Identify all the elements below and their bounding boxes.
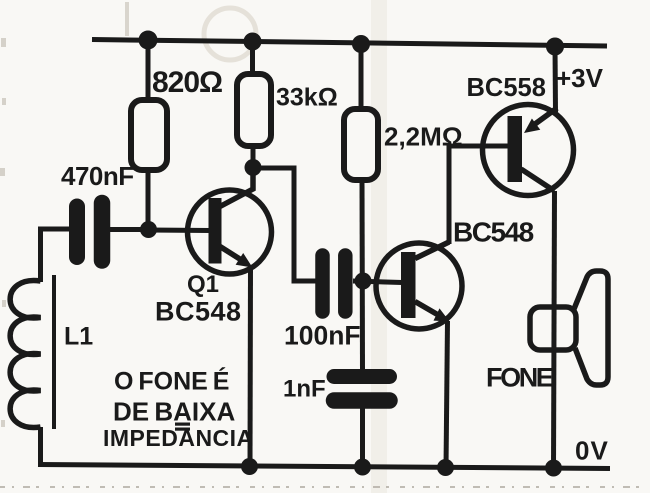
svg-text:+3V: +3V	[556, 63, 604, 93]
transistor T2 body circle	[376, 243, 462, 329]
scan ghost vertical mark top left	[125, 2, 129, 36]
junction dot 0V rail / FONE	[545, 460, 562, 477]
inductor L1 coil	[10, 280, 40, 427]
svg-text:2,2MΩ: 2,2MΩ	[384, 122, 463, 152]
junction dot 0V rail / 1nF	[354, 459, 371, 476]
svg-text:820Ω: 820Ω	[152, 66, 222, 99]
transistor BC558 body circle	[483, 105, 574, 196]
earphone FONE horn cone	[574, 271, 608, 385]
transistor BC558 emitter lead	[535, 108, 557, 124]
svg-text:IMPEDANCIA: IMPEDANCIA	[103, 425, 254, 451]
transistor Q1 body circle	[188, 190, 272, 274]
junction dot Q1 collector / 33k	[245, 159, 262, 176]
wire T2 collector up and right to BC558 base	[449, 146, 509, 244]
svg-text:BC558: BC558	[467, 74, 546, 102]
capacitor 100nF left plate	[315, 256, 330, 312]
wire Q1 emitter to 0V rail	[248, 268, 254, 466]
transistor BC558 emitter arrowhead	[524, 119, 540, 134]
svg-text:0V: 0V	[575, 436, 609, 466]
junction dot node B	[355, 273, 372, 290]
capacitor 470nF right plate	[94, 203, 111, 261]
transistor T2 collector lead	[415, 242, 449, 259]
junction dot +3V rail / 820ohm	[139, 31, 158, 50]
wire +3V rail to 2.2M resistor	[359, 44, 364, 110]
wire node A to Q1 base	[148, 228, 210, 234]
svg-text:DE BAIXA: DE BAIXA	[113, 397, 235, 427]
svg-text:FONE: FONE	[486, 363, 553, 393]
accent dash under A of BAIXA	[175, 423, 190, 426]
wire BC558 emitter to +3V rail	[553, 46, 559, 112]
svg-text:O FONE É: O FONE É	[114, 367, 229, 396]
svg-text:470nF: 470nF	[61, 161, 134, 191]
transistor Q1 collector lead	[220, 167, 253, 207]
wire collector node to 100nF left plate	[253, 168, 316, 281]
junction dot node A	[140, 221, 157, 238]
resistor 2.2M	[344, 109, 378, 180]
svg-text:1nF: 1nF	[283, 376, 326, 403]
transistor BC558 base bar	[508, 116, 523, 182]
scan speckles left edge	[0, 38, 6, 427]
wire BC558 collector through FONE to 0V rail	[554, 191, 555, 468]
junction dot +3V rail / 33k	[244, 33, 262, 51]
wire T2 emitter to 0V rail	[446, 321, 448, 468]
wire node B to T2 base	[353, 281, 402, 283]
earphone FONE square body	[530, 307, 576, 350]
junction dot 0V rail / Q1 emitter	[241, 458, 258, 475]
wire input corner to 470nF left plate	[41, 229, 70, 282]
transistor Q1 emitter arrowhead	[236, 253, 253, 268]
junction dot +3V rail / BC558 emitter	[546, 38, 564, 56]
capacitor 470nF left plate	[69, 207, 85, 258]
transistor T2 emitter lead	[415, 302, 440, 317]
transistor Q1 base bar	[209, 198, 222, 264]
torn paper edge dotted line	[0, 486, 650, 488]
wire L1 bottom to 0V rail	[38, 427, 43, 467]
capacitor 1nF bottom plate	[334, 392, 390, 409]
transistor Q1 emitter lead	[220, 247, 243, 262]
accent macron over A of IMPEDANCIA	[175, 428, 190, 431]
svg-text:L1: L1	[64, 323, 93, 351]
capacitor 100nF right plate	[338, 256, 353, 312]
svg-text:BC548: BC548	[453, 217, 534, 248]
scan ghost arc above rail	[204, 8, 256, 60]
resistor 33k	[237, 74, 271, 146]
svg-text:Q1: Q1	[187, 271, 219, 298]
wire 33k bottom to collector node	[251, 146, 256, 168]
transistor T2 base bar	[401, 252, 416, 318]
wire bottom 0V rail	[38, 465, 610, 469]
svg-text:100nF: 100nF	[284, 321, 361, 351]
svg-text:33kΩ: 33kΩ	[276, 84, 338, 112]
junction dot +3V rail / 2.2M	[352, 35, 370, 53]
wire 820ohm bottom to node A	[146, 170, 151, 230]
wire top +3V rail	[92, 40, 607, 47]
transistor T2 emitter arrowhead	[434, 308, 450, 321]
junction dot 0V rail / T2 emitter	[437, 459, 454, 476]
wire +3V rail to 820ohm resistor	[146, 40, 151, 101]
wire 470nF to node A	[110, 227, 150, 232]
L1 core bar	[52, 275, 56, 429]
wire +3V rail to 33k resistor	[250, 42, 255, 75]
wire 2.2M bottom through node B to 1nF top plate	[360, 180, 366, 371]
svg-text:BC548: BC548	[155, 297, 242, 327]
transistor BC558 collector lead	[521, 169, 555, 191]
resistor 820 ohm	[131, 100, 167, 170]
capacitor 1nF top plate	[334, 369, 390, 384]
scan ghost vertical streak	[371, 0, 387, 493]
wire 1nF bottom plate to 0V rail	[360, 408, 365, 467]
